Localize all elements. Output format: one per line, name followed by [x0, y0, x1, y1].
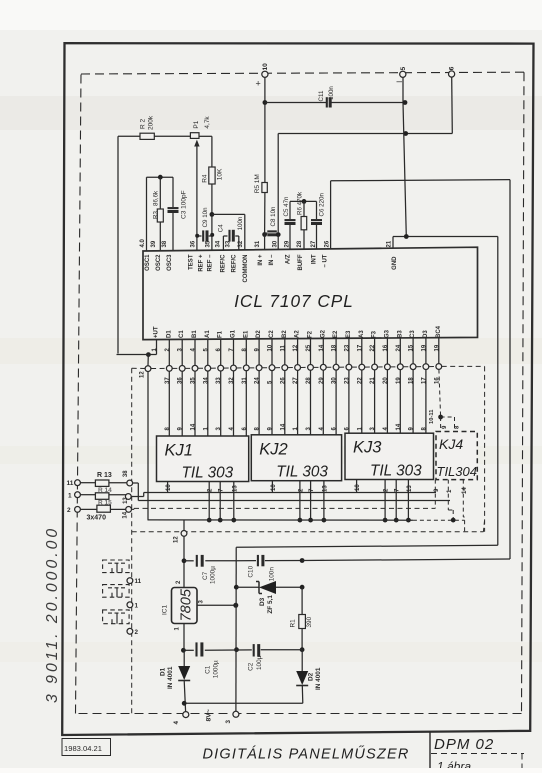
left dashed connector column [131, 368, 133, 713]
title block divider [429, 732, 431, 768]
segment common line B [138, 500, 450, 502]
svg-text:C7: C7 [202, 571, 209, 580]
svg-text:P1: P1 [193, 120, 200, 128]
connector 12 [147, 355, 149, 366]
svg-text:1 ábra: 1 ábra [437, 760, 471, 769]
svg-text:33: 33 [226, 240, 232, 247]
KJ3 pin 10 stub [356, 480, 358, 493]
svg-text:3 9011. 20.000.00: 3 9011. 20.000.00 [44, 526, 61, 703]
svg-text:21: 21 [387, 240, 393, 247]
svg-text:F3: F3 [372, 330, 378, 338]
svg-text:7805: 7805 [178, 588, 194, 621]
supply rail with C7/C10 [184, 560, 194, 562]
svg-text:D2: D2 [256, 330, 262, 338]
svg-text:G1: G1 [231, 329, 237, 338]
svg-text:– UT: – UT [323, 254, 329, 267]
svg-text:86,6k: 86,6k [153, 190, 160, 206]
wire P1 to R4 [199, 135, 212, 137]
svg-text:R3: R3 [153, 211, 160, 219]
svg-text:1983.04.21: 1983.04.21 [64, 744, 102, 753]
svg-text:C10: C10 [248, 565, 255, 577]
GND wire from pin 21 [392, 237, 394, 249]
jumper 2 [103, 610, 130, 624]
junction IN+ [262, 232, 267, 237]
display module KJ2 TIL 303 [251, 435, 341, 481]
resistor R2 200k [140, 133, 154, 139]
svg-text:OSC3: OSC3 [167, 254, 173, 271]
junction at node5 riser [403, 131, 408, 136]
svg-text:100n: 100n [269, 567, 276, 582]
svg-text:A3: A3 [359, 330, 365, 338]
wire OSC1 pin 40 [146, 177, 148, 251]
svg-text:10: 10 [166, 484, 172, 491]
svg-text:C11: C11 [318, 90, 325, 101]
wire node 10 down to IN+ [264, 77, 266, 182]
lower line with C1/C2 [183, 649, 193, 651]
svg-text:32: 32 [238, 240, 244, 247]
svg-text:B3: B3 [397, 330, 403, 338]
display module KJ1 TIL 303 [157, 436, 249, 482]
KJ2 pin 2 stub [299, 481, 301, 520]
wire +5V riser to R2 [117, 136, 119, 353]
svg-text:28: 28 [297, 240, 303, 247]
svg-text:–: – [397, 77, 403, 88]
regulator ground pin 3 wire [197, 604, 236, 606]
svg-text:27: 27 [311, 240, 317, 247]
svg-text:39: 39 [151, 240, 157, 247]
svg-text:R 2: R 2 [140, 119, 147, 130]
svg-text:8V~: 8V~ [206, 709, 213, 721]
node 5 terminal [400, 71, 406, 77]
+5V anode line [148, 519, 413, 521]
KJ2 pin 13 stub [323, 481, 325, 520]
wires from network to common lines [133, 482, 139, 484]
junction C11 left [263, 100, 268, 105]
svg-text:OSC2: OSC2 [156, 254, 162, 271]
svg-text:C5 47n: C5 47n [283, 196, 290, 217]
wire R4 to pin 35 [211, 184, 213, 250]
svg-text:34: 34 [216, 240, 222, 247]
svg-text:C3 100pF: C3 100pF [181, 190, 188, 219]
svg-text:TIL 303: TIL 303 [276, 464, 328, 481]
svg-text:ZF 5,1: ZF 5,1 [267, 595, 274, 614]
svg-text:DIGITÁLIS PANELMŰSZER: DIGITÁLIS PANELMŰSZER [202, 746, 409, 763]
KJ2 pin 10 stub [271, 481, 273, 493]
svg-text:E1: E1 [243, 330, 249, 338]
wire IN- riser [277, 134, 279, 234]
svg-text:10: 10 [355, 484, 361, 491]
svg-text:10K: 10K [217, 168, 224, 180]
capacitor C11 100n [265, 102, 327, 104]
svg-text:GND: GND [392, 256, 398, 270]
svg-text:14: 14 [122, 511, 128, 518]
svg-text:E3: E3 [346, 330, 352, 338]
svg-text:B1: B1 [192, 330, 198, 338]
svg-text:TIL 303: TIL 303 [370, 463, 422, 480]
svg-text:4: 4 [173, 721, 180, 725]
capacitor C3 100pF [172, 177, 174, 207]
svg-text:100n: 100n [237, 216, 244, 230]
svg-text:14: 14 [191, 423, 197, 430]
resistor R5 1M [262, 183, 267, 193]
svg-text:IC1: IC1 [162, 605, 169, 616]
svg-text:KJ3: KJ3 [353, 439, 382, 457]
svg-text:12: 12 [174, 536, 180, 543]
terminal 4 [183, 712, 189, 718]
jumper 11 [103, 560, 130, 573]
svg-text:14: 14 [396, 423, 402, 430]
jumper 1 [103, 585, 130, 598]
svg-text:REF –: REF – [208, 254, 214, 272]
osc top wire [147, 176, 174, 178]
capacitor C1 1000µ [195, 642, 197, 656]
svg-text:100n: 100n [328, 86, 335, 100]
svg-text:390: 390 [306, 616, 313, 627]
svg-text:14: 14 [462, 487, 468, 494]
svg-text:13: 13 [232, 485, 238, 492]
network output circles 38/13/14 [127, 480, 133, 486]
svg-text:1: 1 [68, 493, 72, 500]
dashed from BC4 circle to right [442, 365, 485, 367]
resistor R14 of network [75, 492, 81, 498]
svg-text:E2: E2 [333, 330, 339, 338]
KJ3 pin 13 stub [407, 480, 409, 521]
connector dashed edge line through circles [132, 367, 145, 369]
svg-text:6: 6 [449, 66, 456, 70]
resistor R6 470k [303, 201, 305, 216]
svg-text:5: 5 [400, 67, 407, 71]
svg-text:13: 13 [322, 485, 328, 492]
svg-text:REF +: REF + [199, 254, 205, 272]
svg-text:R6 470k: R6 470k [297, 191, 304, 215]
svg-text:10-11: 10-11 [429, 409, 435, 424]
resistor R4 10K [209, 167, 215, 184]
svg-text:31: 31 [255, 240, 261, 247]
capacitor C2 100µ [237, 649, 252, 651]
svg-text:ICL 7107 CPL: ICL 7107 CPL [234, 291, 354, 311]
capacitor C6 220n [316, 201, 318, 219]
pin 1 +UT junction and wire to +5 rail [146, 352, 151, 357]
capacitor C9 10n [197, 235, 202, 237]
svg-text:R5 1M: R5 1M [254, 174, 261, 193]
svg-text:COMMON: COMMON [243, 255, 249, 283]
svg-text:REF/C: REF/C [221, 254, 227, 273]
svg-text:A2: A2 [295, 330, 301, 338]
capacitor C4 100n [222, 236, 224, 250]
dashed common line [134, 507, 435, 509]
svg-text:R4: R4 [201, 174, 208, 183]
svg-text:3: 3 [225, 720, 232, 724]
KJ3 pin 2 stub [384, 480, 386, 521]
rectifier diode D1 1N4001 [183, 624, 185, 651]
capacitor C7 1000µ [196, 555, 198, 567]
capacitor C10 100n [236, 560, 256, 562]
svg-text:G3: G3 [384, 329, 390, 338]
svg-text:C2: C2 [269, 330, 275, 338]
KJ3 pin 7 stub [395, 480, 397, 521]
KJ2 pin 7 stub [310, 481, 312, 520]
svg-text:D3: D3 [259, 597, 266, 606]
svg-text:11: 11 [67, 480, 74, 487]
svg-text:F1: F1 [218, 330, 224, 338]
svg-text:13: 13 [123, 497, 129, 504]
svg-text:29: 29 [285, 240, 291, 247]
segment common line A [144, 492, 436, 494]
svg-text:35: 35 [206, 240, 212, 247]
svg-text:1: 1 [135, 602, 139, 609]
svg-text:D3: D3 [423, 330, 429, 338]
svg-text:F2: F2 [308, 330, 314, 338]
wire D2 to terminal 4 [184, 702, 303, 704]
svg-text:1000µ: 1000µ [209, 566, 216, 584]
svg-text:D1: D1 [166, 330, 172, 338]
resistor R13 of network [75, 480, 81, 486]
svg-text:G2: G2 [320, 329, 326, 338]
svg-text:A/Z: A/Z [286, 254, 292, 264]
svg-text:2: 2 [135, 629, 139, 636]
KJ1 pin 7 stub [219, 482, 221, 521]
svg-text:TEST: TEST [189, 254, 195, 270]
resistor R3 86,6k [159, 177, 161, 209]
svg-text:14: 14 [280, 423, 286, 430]
svg-text:BUFF: BUFF [298, 254, 304, 270]
KJ1 pin 2 stub [208, 482, 210, 521]
svg-text:C4: C4 [217, 224, 224, 232]
junction IN- [276, 232, 281, 237]
wire IN- to node 6 [278, 133, 452, 135]
svg-text:INT: INT [312, 254, 318, 264]
svg-text:TIL 303: TIL 303 [182, 465, 234, 482]
svg-text:DPM 02: DPM 02 [434, 736, 494, 753]
diode D2 IN4001 [296, 671, 308, 685]
svg-text:D1: D1 [160, 667, 167, 676]
svg-text:100µ: 100µ [256, 655, 263, 670]
svg-text:4,7k: 4,7k [204, 116, 211, 129]
svg-text:OSC1: OSC1 [145, 254, 151, 271]
svg-text:2: 2 [67, 507, 71, 514]
svg-text:C1: C1 [205, 665, 212, 674]
zener diode D3 ZF5,1 [236, 586, 259, 588]
KJ4 pin stubs (dashed) [434, 480, 436, 509]
display module KJ4 TIL 303 [436, 432, 477, 480]
svg-text:IN +: IN + [258, 254, 264, 266]
svg-text:1000µ: 1000µ [213, 660, 220, 678]
outer drawn border frame [62, 43, 533, 735]
wire to COMMON pin 32 [212, 213, 245, 215]
svg-text:B2: B2 [282, 330, 288, 338]
svg-text:36: 36 [191, 240, 197, 247]
resistor R1 390 [301, 587, 303, 614]
svg-text:10: 10 [262, 63, 269, 71]
A/Z cluster top wire [290, 200, 317, 202]
junction R4/COMMON [210, 212, 215, 217]
svg-text:D2: D2 [308, 672, 315, 681]
svg-text:KJ4: KJ4 [439, 436, 463, 452]
svg-text:38: 38 [123, 470, 129, 477]
svg-text:12: 12 [140, 371, 146, 378]
inner dashed border [81, 72, 524, 74]
svg-text:11: 11 [135, 578, 142, 585]
svg-text:10: 10 [271, 484, 277, 491]
svg-text:R 13: R 13 [97, 472, 112, 479]
svg-text:4.0: 4.0 [140, 238, 146, 247]
node 10 (+ input terminal) [262, 71, 268, 77]
capacitor C5 47n [289, 201, 291, 219]
svg-text:13: 13 [407, 485, 413, 492]
0V column [235, 561, 237, 712]
KJ1 pin 10 stub [167, 482, 169, 493]
wire R2 to P1 [154, 135, 190, 137]
display module KJ3 TIL 303 [345, 433, 434, 479]
+5V column to regulator [183, 520, 185, 588]
GND return to 0V column [236, 545, 498, 547]
svg-text:KJ1: KJ1 [165, 442, 193, 460]
op-amp/ADC IC ICL 7107 CPL [143, 247, 478, 339]
date box [62, 739, 111, 756]
svg-text:30: 30 [273, 240, 279, 247]
svg-text:IN 4001: IN 4001 [315, 667, 322, 690]
resistor R15 of network [75, 507, 81, 513]
svg-text:+: + [256, 79, 261, 89]
svg-text:KJ2: KJ2 [259, 440, 287, 458]
capacitor C8 10n [267, 230, 277, 232]
svg-text:R1: R1 [290, 619, 297, 628]
svg-text:C6 220n: C6 220n [318, 193, 325, 217]
KJ4 top feed (dashed) [438, 415, 443, 420]
svg-text:C9 10n: C9 10n [202, 207, 209, 228]
svg-text:TIL304: TIL304 [437, 464, 477, 479]
dashed return line [132, 531, 484, 533]
svg-text:C8 10n: C8 10n [270, 206, 277, 227]
svg-text:C2: C2 [248, 662, 255, 671]
svg-text:REF/C: REF/C [232, 254, 238, 273]
svg-text:IN 4001: IN 4001 [167, 666, 174, 689]
svg-text:+UT: +UT [154, 326, 160, 338]
svg-text:C3: C3 [410, 330, 416, 338]
svg-text:BC4: BC4 [436, 325, 442, 338]
P1 wiper arrow [194, 140, 199, 147]
svg-text:200k: 200k [148, 115, 155, 130]
KJ1 pin 13 stub [233, 482, 235, 521]
node 5 riser [402, 77, 404, 102]
svg-text:C1: C1 [179, 330, 185, 338]
voltage regulator IC1 7805 [172, 588, 198, 624]
terminal 3 [233, 711, 239, 717]
svg-text:38: 38 [162, 240, 168, 247]
svg-text:3x470: 3x470 [87, 515, 107, 522]
svg-text:A1: A1 [205, 330, 211, 338]
V- rail from pin 26 [330, 181, 332, 249]
node 6 terminal [449, 71, 455, 77]
svg-text:26: 26 [325, 240, 331, 247]
trimmer P1 4,7k [190, 133, 199, 139]
svg-text:IN –: IN – [269, 254, 275, 266]
